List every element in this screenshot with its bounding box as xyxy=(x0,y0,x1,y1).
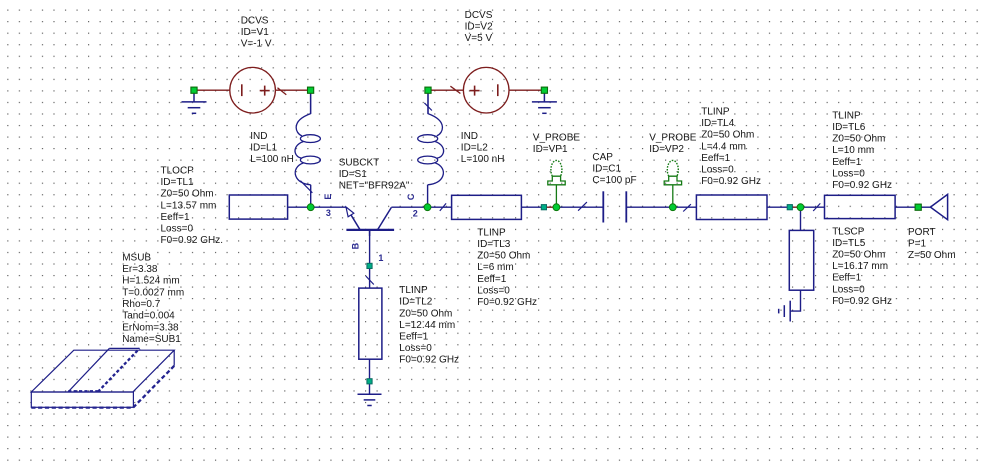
TLINP TL6 body xyxy=(825,195,896,218)
wire TL1 to node E xyxy=(288,206,311,208)
emitter arrowhead xyxy=(346,207,354,217)
ground at V1 xyxy=(182,93,207,113)
terminal V1 pin2 xyxy=(308,87,314,93)
terminal ground V1 xyxy=(191,87,197,93)
TL5 pin lead xyxy=(792,206,797,208)
node VP1 xyxy=(553,204,560,211)
wire node E to emitter arrow xyxy=(311,206,347,208)
pin tick L1 bottom xyxy=(300,181,312,193)
wire group: main signal path xyxy=(288,206,931,208)
pin tick TL3 pin1 xyxy=(440,203,446,211)
wire TL4 to pin square xyxy=(767,206,787,208)
wire L1 bottom to node E xyxy=(310,185,312,207)
pin tick marks on wires xyxy=(300,103,820,285)
svg-text:E: E xyxy=(323,194,333,200)
terminal V2 ground xyxy=(541,87,547,93)
terminal V2 pin1 xyxy=(425,87,431,93)
wire collector to node C xyxy=(391,206,427,208)
pin tick TL6 pin1 xyxy=(813,203,820,211)
inductor L1 xyxy=(295,93,320,185)
wire node VP1 to C1 xyxy=(556,206,603,208)
pin square base 1 xyxy=(367,263,372,268)
substrate dashed edges xyxy=(31,348,174,407)
svg-text:1: 1 xyxy=(378,253,383,263)
pin square TL2 bottom xyxy=(367,379,372,384)
node TL5 xyxy=(797,204,804,211)
wire V1 terminal down to L1 xyxy=(310,93,312,114)
TLOCP TL1 body xyxy=(229,195,287,219)
wire TL3 to pin square xyxy=(521,206,541,208)
wire node down to TL5 xyxy=(800,207,802,230)
pin square TL3 xyxy=(541,205,546,210)
wire TL6 to port square xyxy=(895,206,915,208)
ground below TL2 xyxy=(358,394,382,405)
DC voltage source V1 xyxy=(197,67,308,113)
MSUB substrate drawing xyxy=(31,348,174,407)
svg-text:B: B xyxy=(351,242,361,249)
svg-text:3: 3 xyxy=(326,208,331,218)
pin tick TL4 pin1 xyxy=(683,204,691,211)
ground at TL5 (rotated left) xyxy=(779,301,791,322)
TLINP TL3 body xyxy=(452,195,522,219)
voltage probe VP2 xyxy=(664,160,681,204)
voltage probe VP1 xyxy=(548,160,565,204)
wire V2 terminal down to L2 xyxy=(427,93,429,114)
port P1 xyxy=(930,194,947,219)
wire C1 to node VP2 xyxy=(626,206,673,208)
pin tick L2 top xyxy=(424,103,432,111)
probe pin lead VP1 xyxy=(546,206,553,208)
TLINP TL4 body xyxy=(696,195,767,220)
pin tick C1 pin1 xyxy=(578,202,587,211)
DC voltage source V2 xyxy=(431,67,542,113)
transistor S1 BFR92A xyxy=(346,207,394,236)
svg-text:2: 2 xyxy=(413,209,418,219)
node E xyxy=(307,204,314,211)
svg-text:C: C xyxy=(406,193,416,200)
pin square TL4 xyxy=(787,205,792,210)
wire node TL5 to TL6 xyxy=(801,206,825,208)
node C xyxy=(424,204,431,211)
wire TL5 bottom to ground xyxy=(790,290,800,311)
node VP2 xyxy=(669,204,676,211)
wire node C to TL3 xyxy=(428,206,452,208)
TLINP TL2 body xyxy=(359,288,382,359)
wire transistor base down to TL2 xyxy=(369,230,371,288)
capacitor C1 xyxy=(603,191,626,222)
svg-text:DCVS ID=V1 V=-1 V: DCVS ID=V1 V=-1 V xyxy=(241,15,272,49)
ground at V2 xyxy=(532,93,557,113)
terminal port xyxy=(915,204,921,210)
wire node VP2 to TL4 xyxy=(673,206,697,208)
inductor L2 xyxy=(418,93,444,185)
pin tick transistor base xyxy=(366,276,374,284)
wire TL2 bottom to ground xyxy=(369,359,371,394)
wire square to port xyxy=(921,206,930,208)
svg-text:DCVS ID=V2 V=5 V: DCVS ID=V2 V=5 V xyxy=(465,10,496,44)
wire L2 bottom to node C xyxy=(427,185,429,207)
TLSCP TL5 body xyxy=(789,230,813,290)
